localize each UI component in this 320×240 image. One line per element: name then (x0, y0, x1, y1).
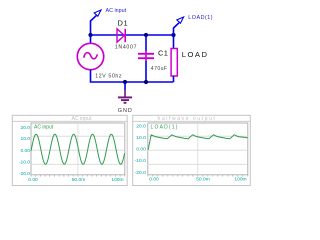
graph panel frame (133, 115, 251, 185)
wire: probe stem LOAD(1) (174, 23, 180, 35)
svg-text:LOAD: LOAD (182, 50, 209, 59)
svg-text:AC input: AC input (34, 124, 54, 130)
svg-text:C1: C1 (158, 49, 168, 58)
svg-text:470uF: 470uF (151, 66, 168, 72)
wire: LOAD top lead (173, 35, 175, 49)
svg-text:0.00: 0.00 (20, 148, 30, 154)
gridline 50m vertical (197, 123, 199, 175)
voltage probe AC input (arrowhead) (94, 10, 101, 16)
diode D1 (117, 29, 125, 42)
waveform: rectified ripple trace (148, 135, 248, 150)
svg-text:GND: GND (118, 108, 133, 114)
gridline 50m vertical (77, 123, 79, 175)
svg-text:100m: 100m (111, 177, 123, 183)
junction dot at LOAD top node (171, 33, 175, 37)
wire: source top lead (90, 35, 92, 43)
svg-text:0.00: 0.00 (149, 176, 159, 182)
gridline +10 (31, 135, 125, 137)
svg-text:-20.0: -20.0 (19, 171, 30, 177)
waveform: sine trace (31, 134, 125, 164)
graph title bar separator (133, 120, 251, 122)
svg-text:12V 50hz: 12V 50hz (95, 74, 122, 80)
graph window: AC input (12, 115, 127, 185)
AC source sine symbol (84, 53, 98, 59)
svg-text:AC input: AC input (72, 116, 92, 122)
wire: ground stub (124, 82, 126, 90)
svg-text:halfwave output: halfwave output (158, 116, 217, 122)
svg-text:0.00: 0.00 (28, 177, 38, 183)
svg-text:50.0m: 50.0m (196, 176, 210, 182)
junction dot at C1 top node (144, 33, 148, 37)
gridline 0 (148, 149, 248, 151)
graph panel frame (12, 115, 127, 185)
svg-text:50.0m: 50.0m (72, 177, 86, 183)
graph title bar separator (12, 120, 127, 122)
graph window: halfwave output (133, 115, 251, 185)
svg-text:100m: 100m (234, 176, 246, 182)
x axis minor ticks (148, 175, 248, 177)
plot area border (31, 123, 125, 175)
plot area border (148, 123, 248, 175)
gridline +10 (148, 135, 248, 137)
ground symbol (118, 90, 132, 103)
junction dot at ground node (123, 80, 127, 84)
x axis minor ticks (31, 175, 125, 177)
svg-text:10.0: 10.0 (20, 136, 30, 142)
svg-text:AC input: AC input (106, 8, 127, 14)
wire: LOAD bottom lead (173, 76, 175, 82)
svg-text:0.00: 0.00 (136, 147, 146, 153)
wire: probe stem AC input (91, 16, 97, 35)
junction dot at source top node (88, 33, 92, 37)
svg-text:-20.0: -20.0 (135, 170, 146, 176)
resistor LOAD (box body) (171, 49, 177, 77)
gridline 0 (31, 149, 125, 151)
svg-text:LOAD(1): LOAD(1) (151, 124, 179, 130)
voltage probe LOAD(1) (arrowhead) (177, 17, 184, 23)
wire: source bottom lead to bottom rail (91, 70, 174, 82)
wire: top rail (probe node through diode to load top) (91, 34, 174, 36)
svg-text:20.0: 20.0 (20, 125, 30, 131)
gridline -10 (148, 163, 248, 165)
svg-text:D1: D1 (118, 19, 129, 28)
capacitor C1 plates and pin stubs (138, 51, 154, 62)
wire: C1 bottom lead (145, 61, 147, 82)
gridline -10 (31, 163, 125, 165)
AC source V1 circle (77, 43, 103, 69)
svg-text:1N4007: 1N4007 (115, 44, 137, 50)
svg-text:-10.0: -10.0 (135, 158, 146, 164)
svg-text:-10.0: -10.0 (19, 159, 30, 165)
junction dot at C1 bottom node (144, 80, 148, 84)
svg-text:LOAD(1): LOAD(1) (188, 15, 213, 21)
svg-text:10.0: 10.0 (136, 135, 146, 141)
svg-text:20.0: 20.0 (136, 124, 146, 130)
wire: C1 top lead (145, 35, 147, 51)
